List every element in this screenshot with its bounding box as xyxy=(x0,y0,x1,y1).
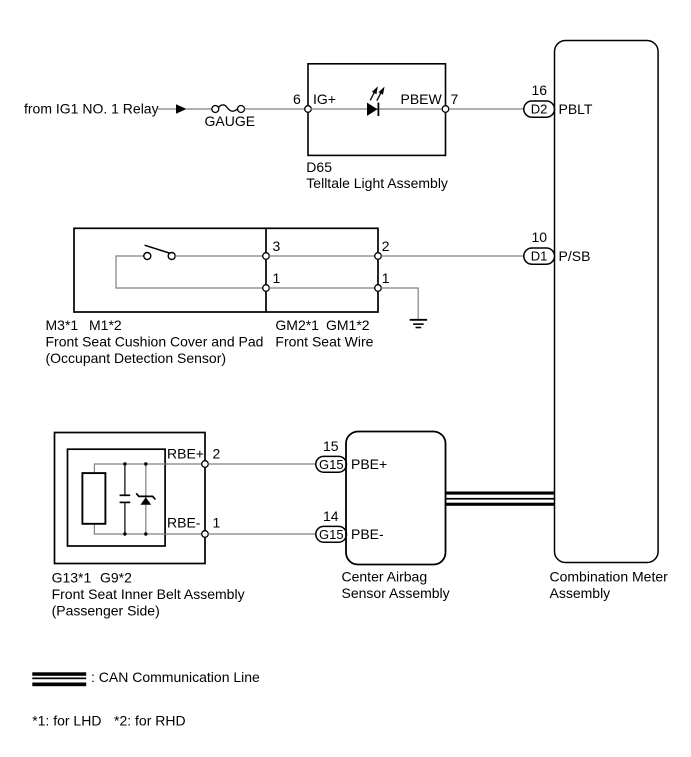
pin 1 (belt) xyxy=(202,515,221,538)
wire: switch to pin 3 xyxy=(175,255,263,257)
svg-text:RBE+: RBE+ xyxy=(167,446,204,462)
svg-text:GM1*2: GM1*2 xyxy=(326,317,370,333)
svg-text:1: 1 xyxy=(382,270,390,286)
pin 1 (front seat wire right) xyxy=(375,270,390,291)
wire: internal D65 wire xyxy=(311,108,442,110)
net P/SB xyxy=(559,248,591,264)
caption D65 xyxy=(306,159,448,191)
svg-text:GM2*1: GM2*1 xyxy=(275,317,319,333)
svg-text:2: 2 xyxy=(382,238,390,254)
belt sensor inner box xyxy=(68,449,166,546)
wire: pin 1 to connector G15 xyxy=(208,533,316,535)
resistor (belt switch element) xyxy=(82,473,105,524)
fuse GAUGE xyxy=(212,105,245,113)
pin label RBE- xyxy=(167,515,201,531)
telltale light assembly D65 box xyxy=(308,64,446,156)
svg-text:6: 6 xyxy=(293,91,301,107)
pin 1 (sensor side) xyxy=(263,270,281,291)
pin label IG+ xyxy=(313,91,336,107)
value label GAUGE xyxy=(205,113,256,129)
svg-text:(Occupant Detection Sensor): (Occupant Detection Sensor) xyxy=(46,350,227,366)
svg-text:from IG1 NO. 1 Relay: from IG1 NO. 1 Relay xyxy=(24,101,159,117)
wire: fuse to D65 pin 6 xyxy=(245,108,306,110)
svg-text:P/SB: P/SB xyxy=(559,248,591,264)
svg-text:RBE-: RBE- xyxy=(167,515,201,531)
wire: pin 2 to connector G15 xyxy=(208,463,316,465)
net PBLT xyxy=(559,101,593,117)
pin 3 xyxy=(263,238,281,259)
svg-text:14: 14 xyxy=(323,508,339,524)
svg-text:Combination Meter: Combination Meter xyxy=(550,569,669,585)
svg-text:Sensor Assembly: Sensor Assembly xyxy=(342,585,450,601)
svg-text:Front Seat Inner Belt Assembly: Front Seat Inner Belt Assembly xyxy=(52,586,245,602)
pin label PBEW xyxy=(401,91,443,107)
svg-text:1: 1 xyxy=(213,515,221,531)
caption G13 G9 front seat inner belt assembly xyxy=(52,570,245,619)
pin 7 xyxy=(442,91,458,112)
svg-text:D65: D65 xyxy=(306,159,332,175)
wire: pin 1 to ground xyxy=(381,288,418,319)
svg-text:Assembly: Assembly xyxy=(550,585,611,601)
svg-text:10: 10 xyxy=(532,229,548,245)
ground xyxy=(410,320,427,328)
caption M3 M1 front seat cushion cover and pad xyxy=(46,317,264,366)
svg-text:1: 1 xyxy=(273,270,281,286)
net PBE+ xyxy=(351,456,387,472)
node: from IG1 NO. 1 Relay feed label xyxy=(24,101,159,117)
svg-text:PBE+: PBE+ xyxy=(351,456,387,472)
svg-text:2: 2 xyxy=(213,446,221,462)
zener diode xyxy=(136,493,155,504)
wire: zener stub xyxy=(145,464,147,534)
pin number 16 xyxy=(532,82,548,98)
svg-text:7: 7 xyxy=(451,91,459,107)
svg-text:G15: G15 xyxy=(319,457,344,472)
connector G15 (PBE+) xyxy=(316,456,347,472)
svg-text:*2: for RHD: *2: for RHD xyxy=(114,713,186,729)
wire: sensor left vertical xyxy=(115,256,117,288)
wire: relay feed to fuse (with arrow) xyxy=(158,104,212,113)
wire: sensor bottom branch xyxy=(115,287,263,289)
wire: CAN communication line (airbag sensor to combination meter) xyxy=(446,492,555,506)
legend text xyxy=(91,669,260,685)
pin number 14 xyxy=(323,508,339,524)
svg-text:D2: D2 xyxy=(531,102,548,117)
pin number 10 xyxy=(532,229,548,245)
footnote xyxy=(32,713,185,729)
wire: sensor top branch to switch xyxy=(115,255,144,257)
front seat inner belt assembly outer box G13/G9 xyxy=(55,433,206,564)
svg-text:IG+: IG+ xyxy=(313,91,336,107)
caption center airbag sensor assembly xyxy=(342,569,450,602)
svg-text:Front Seat Wire: Front Seat Wire xyxy=(275,334,373,350)
svg-text:G15: G15 xyxy=(319,527,344,542)
svg-text:D1: D1 xyxy=(531,249,548,264)
svg-text:Telltale Light Assembly: Telltale Light Assembly xyxy=(306,175,448,191)
front seat cushion sensor box M3/M1 + front seat wire GM2/GM1 xyxy=(74,228,378,312)
switch: occupant detection sensor xyxy=(144,245,175,259)
net PBE- xyxy=(351,526,384,542)
connector D1 xyxy=(524,248,555,264)
wire: pin 3 to pin 2 xyxy=(269,255,375,257)
svg-text:: CAN Communication Line: : CAN Communication Line xyxy=(91,669,260,685)
pin 2 (belt) xyxy=(202,446,221,468)
wire: bottom rail RBE- xyxy=(94,533,205,535)
wire: pin 1 to pin 1 xyxy=(269,287,375,289)
pin number 15 xyxy=(323,438,339,454)
svg-text:GAUGE: GAUGE xyxy=(205,113,256,129)
pin 6 xyxy=(293,91,311,112)
connector G15 (PBE-) xyxy=(316,526,347,542)
svg-text:PBE-: PBE- xyxy=(351,526,384,542)
svg-text:M3*1: M3*1 xyxy=(46,317,79,333)
svg-text:PBLT: PBLT xyxy=(559,101,593,117)
svg-text:G9*2: G9*2 xyxy=(100,570,132,586)
wire: top rail RBE+ xyxy=(94,463,205,465)
pin label RBE+ xyxy=(167,446,204,462)
caption GM2 GM1 front seat wire xyxy=(275,317,373,350)
svg-text:Front Seat Cushion Cover and P: Front Seat Cushion Cover and Pad xyxy=(46,334,264,350)
caption combination meter assembly xyxy=(550,569,669,602)
svg-text:M1*2: M1*2 xyxy=(89,317,122,333)
junction dots on rails xyxy=(123,462,147,535)
wire: resistor stubs xyxy=(93,463,95,534)
center airbag sensor assembly box xyxy=(346,432,446,565)
svg-text:*1: for LHD: *1: for LHD xyxy=(32,713,101,729)
svg-text:3: 3 xyxy=(273,238,281,254)
combination meter assembly box xyxy=(555,41,659,563)
pin 2 (front seat wire) xyxy=(375,238,390,259)
svg-text:PBEW: PBEW xyxy=(401,91,443,107)
svg-text:G13*1: G13*1 xyxy=(52,570,92,586)
legend: CAN communication line symbol xyxy=(32,672,86,686)
LED D65 telltale lamp xyxy=(367,86,385,116)
svg-text:15: 15 xyxy=(323,438,339,454)
capacitor xyxy=(120,495,131,502)
wire: capacitor stubs xyxy=(124,464,126,534)
wire: pin 2 to connector D1 xyxy=(381,255,524,257)
svg-text:16: 16 xyxy=(532,82,548,98)
svg-text:(Passenger Side): (Passenger Side) xyxy=(52,603,160,619)
wire: pin 7 to connector D2 xyxy=(449,108,524,110)
svg-text:Center Airbag: Center Airbag xyxy=(342,569,428,585)
connector D2 xyxy=(524,101,555,117)
